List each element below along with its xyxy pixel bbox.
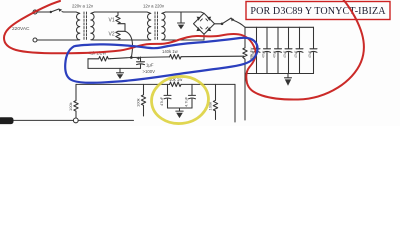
connector: bottom left black blob xyxy=(0,117,14,124)
resistor R 10k xyxy=(170,82,181,87)
svg-text:47uF: 47uF xyxy=(294,51,298,58)
wire: T1 secondary top to heaters and T2 xyxy=(95,11,148,13)
capacitor bank C4 xyxy=(273,27,282,73)
ground at lower caps xyxy=(176,108,183,118)
node: junction dot heater tap xyxy=(130,56,133,59)
wire: T2 secondary top to bridge xyxy=(166,12,205,13)
svg-text:220VAC: 220VAC xyxy=(12,26,30,32)
svg-text:1µF: 1µF xyxy=(146,62,154,67)
capacitor bank C7 xyxy=(308,27,317,73)
svg-text:100k: 100k xyxy=(68,102,73,111)
svg-text:POR D3C89 Y TONYCT-IBIZA: POR D3C89 Y TONYCT-IBIZA xyxy=(250,6,386,17)
switch SW1 xyxy=(50,8,63,13)
svg-text:47uF: 47uF xyxy=(283,51,287,58)
wire: switch SW2 to capacitor bank rail xyxy=(234,20,245,27)
transformer T2 primary winding xyxy=(147,12,151,40)
svg-text:47uF: 47uF xyxy=(262,51,266,58)
transformer T2 core xyxy=(155,12,158,40)
wire: bridge output to switch SW2 xyxy=(215,23,223,25)
wire: T1 secondary bottom to heaters and T2 xyxy=(95,39,148,41)
svg-text:4.7uF: 4.7uF xyxy=(184,96,189,107)
heater V1 xyxy=(116,12,120,24)
ground at T2 secondary xyxy=(178,12,185,29)
wire: capacitor bank bottom rail xyxy=(245,73,314,75)
annotation: red marker loop xyxy=(4,0,364,100)
capacitor C 47uF lower xyxy=(159,84,171,108)
wire: 41k to junction node xyxy=(111,58,132,59)
resistor R bleed 30k 1w vertical xyxy=(243,27,247,73)
node: AC input terminal top xyxy=(33,10,37,14)
svg-text:100k: 100k xyxy=(135,98,140,107)
transformer T1 primary winding xyxy=(76,12,80,40)
wire: junction to 140k xyxy=(131,56,169,59)
capacitor C 1uF xyxy=(137,57,145,68)
svg-text:V1: V1 xyxy=(109,18,115,24)
svg-text:220v a 12v: 220v a 12v xyxy=(72,3,94,8)
resistor R 100k left-most vertical xyxy=(74,84,78,118)
switch SW2 xyxy=(221,18,235,25)
wire: lower B+ rail left segment xyxy=(76,83,170,85)
capacitor C 4.7uF lower xyxy=(184,84,196,108)
resistor R 100k third vertical xyxy=(213,84,217,119)
wire: caps join bar xyxy=(168,107,193,109)
capacitor bank C3 xyxy=(262,27,271,73)
svg-text:47uF: 47uF xyxy=(159,96,164,106)
resistor R 140k xyxy=(170,55,181,60)
transformer T1 secondary winding xyxy=(91,12,95,40)
wire: 140k to 30k column xyxy=(181,55,244,58)
svg-text:V2: V2 xyxy=(109,32,115,38)
wire: mid box left side xyxy=(87,59,89,69)
wire: heater V1 to heater V2 step xyxy=(118,24,125,32)
capacitor bank C6 xyxy=(294,27,303,73)
svg-text:>100V: >100V xyxy=(143,69,156,74)
annotation: blue marker loop xyxy=(65,38,257,83)
wire: terminal bottom to T1 primary xyxy=(37,39,76,41)
wire: bottom output wire xyxy=(8,119,134,121)
wire: lower rail right corner down xyxy=(234,84,236,122)
annotation: yellow circle xyxy=(149,74,211,127)
svg-text:12v a 220v: 12v a 220v xyxy=(143,3,165,8)
ground at mid box xyxy=(117,68,124,79)
heater V2 xyxy=(116,31,120,40)
svg-text:47uF: 47uF xyxy=(308,51,312,58)
resistor R 100k second vertical xyxy=(141,84,145,116)
ground at capacitor bank xyxy=(285,74,292,86)
wire: bleed column down to lower rail area xyxy=(244,74,246,121)
transformer T2 secondary winding xyxy=(162,12,166,40)
wire: T2 secondary bottom to bridge xyxy=(166,35,205,41)
title box xyxy=(246,2,390,20)
wire: heater tap curving down to 41k node xyxy=(125,31,132,57)
wire: mid box bottom rail xyxy=(88,67,141,69)
wire: lower B+ rail right segment xyxy=(181,83,235,85)
wire: terminal top to switch xyxy=(37,11,51,13)
svg-text:140k 1w: 140k 1w xyxy=(162,49,179,54)
bridge rectifier BR1 xyxy=(194,13,215,34)
resistor R 41k xyxy=(88,56,111,61)
capacitor bank C5 xyxy=(283,27,292,73)
capacitor bank C2 xyxy=(251,27,260,73)
node: output terminal circle xyxy=(73,118,78,123)
transformer T1 core xyxy=(84,12,87,40)
wire: capacitor bank top rail xyxy=(245,26,314,28)
wire: switch to transformer T1 primary xyxy=(62,11,76,13)
svg-text:47uF: 47uF xyxy=(273,51,277,58)
node: AC input terminal bottom xyxy=(33,38,37,42)
